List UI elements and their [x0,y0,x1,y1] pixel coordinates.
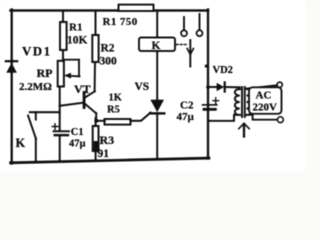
wire relay coil top lead [156,12,158,38]
wire contact stub right [199,14,201,30]
svg-text:91: 91 [98,148,110,160]
svg-text:RP: RP [37,66,53,80]
svg-text:K: K [16,136,26,150]
wire R1 top lead [62,12,64,23]
wire C2 bottom to primary bottom [208,111,240,121]
svg-text:R1: R1 [69,22,82,34]
wire RP wiper loop right [78,60,80,76]
svg-text:R3: R3 [100,133,115,147]
wire VT emitter down [95,113,97,120]
wire left border rail [10,10,12,164]
transformer core [241,87,243,117]
thyristor VS [150,100,164,113]
plus mark C1 [52,124,58,130]
transistor VT [83,91,86,109]
wire R3 top lead [95,118,97,126]
svg-text:10K: 10K [67,35,88,47]
svg-text:AC: AC [256,90,272,102]
plus mark C2 [213,98,219,104]
svg-text:1K: 1K [109,93,123,104]
wire R3 bottom lead [95,151,97,161]
wire K top contact stub [35,112,37,119]
wire R1 to RP [62,50,64,61]
wire RP wiper loop top [63,59,79,61]
wire VD2 to transformer [225,87,240,89]
wire right rail [207,10,209,159]
contact circle right [197,30,203,36]
svg-text:220V: 220V [253,102,278,114]
relay blade [189,40,191,67]
wire K branch horizontal [30,111,60,113]
wire relay to SCR [156,51,158,100]
resistor R2 [92,35,98,62]
svg-text:R5: R5 [107,105,120,116]
wire emitter to R5/R3 node [95,120,104,122]
transformer secondary winding [247,89,252,115]
wire top rail [11,9,209,12]
capacitor C1 [54,130,70,132]
junction nub on right rail [205,65,209,68]
wire C1 bottom lead [59,136,61,162]
svg-text:47µ: 47µ [177,111,195,123]
terminal circle bottom [278,117,284,123]
capacitor C2 [203,104,217,106]
wire K bottom lead [35,139,37,163]
svg-text:VS: VS [135,81,150,93]
svg-text:VT: VT [74,82,91,96]
potentiometer RP [58,61,64,87]
wire contact stub left [183,17,185,30]
transformer primary winding [235,89,240,115]
terminal circle top [277,82,282,87]
wire secondary top to AC terminal [247,85,277,88]
svg-text:R1 750: R1 750 [103,16,138,28]
svg-text:K: K [152,40,161,52]
svg-text:2.2MΩ: 2.2MΩ [19,81,52,93]
wire R5 to gate [130,113,150,121]
junction dot VD2 [206,85,210,89]
diode VD2 [208,86,217,88]
diode VD1 (on left rail, cathode up) [6,60,17,62]
svg-text:47µ: 47µ [69,138,86,149]
arrow under transformer [243,126,245,137]
switch K blade [28,116,36,139]
svg-text:C1: C1 [71,127,84,138]
relay coil K box [139,38,175,52]
wire SCR cathode to bottom rail [156,113,158,159]
wire secondary bottom to AC terminal [247,115,277,120]
wire R2 to collector [94,62,96,92]
resistor R1 750 (inline on top rail) [119,5,154,11]
wire RP wiper arrow [67,75,80,78]
resistor R1 [60,22,67,50]
svg-text:C2: C2 [180,100,194,112]
wire bottom rail [11,158,210,163]
mechanical link dotted [177,44,188,46]
wire VT base lead [60,103,83,106]
wire RP bottom column [59,87,61,131]
resistor R5 [105,119,131,125]
resistor R3 [93,126,99,151]
svg-text:R2: R2 [101,43,115,55]
svg-text:300: 300 [100,56,118,68]
wire R2 top lead [94,12,96,36]
AC source box [249,87,282,114]
svg-text:VD2: VD2 [213,65,233,76]
svg-text:VD1: VD1 [22,44,51,59]
contact circle left [181,30,187,36]
